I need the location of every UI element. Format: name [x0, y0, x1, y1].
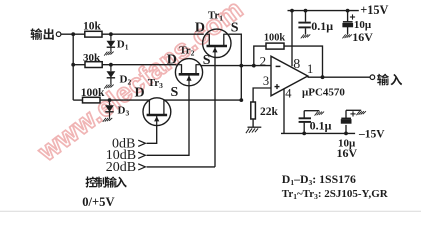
wire 100k to Tr3 D: [100, 99, 150, 101]
op-amp U1 (uPC4570): [271, 56, 308, 96]
svg-text:D: D: [135, 85, 145, 100]
junction feedback tap: [252, 64, 256, 68]
label -15V: [358, 129, 385, 141]
wire feedback right: [284, 46, 323, 77]
svg-text:Tr1~Tr3: 2SJ105-Y,GR: Tr1~Tr3: 2SJ105-Y,GR: [282, 188, 389, 201]
pin 8: [293, 57, 300, 72]
svg-text:20dB: 20dB: [106, 160, 136, 175]
svg-text:–15V: –15V: [358, 129, 385, 141]
svg-text:10k: 10k: [83, 21, 102, 33]
resistor 30k: [83, 52, 102, 68]
junction D3 tap: [108, 98, 112, 102]
terminal 输入 (input): [370, 75, 375, 80]
capacitor 10u 16V top: [342, 11, 355, 39]
watermark: [32, 0, 249, 167]
transistor Tr3: [143, 77, 171, 126]
label +15V: [360, 3, 388, 17]
wire bus to 30k: [73, 64, 85, 66]
label D of Tr1: [195, 20, 205, 35]
svg-text:D: D: [167, 53, 177, 68]
svg-text:100k: 100k: [264, 32, 285, 43]
junction 10u top: [346, 9, 350, 13]
pin 2: [260, 54, 267, 69]
terminal 输出: [56, 32, 61, 37]
label 16V bottom: [337, 146, 358, 160]
wire Tr2 S to op-amp pin2: [201, 65, 271, 67]
label 0.1u bottom: [310, 119, 332, 133]
transistor Tr1: [203, 10, 231, 58]
svg-text:0.1μ: 0.1μ: [311, 19, 333, 33]
svg-text:0.1μ: 0.1μ: [310, 119, 332, 133]
svg-text:16V: 16V: [352, 30, 373, 44]
junction 10u bottom: [344, 132, 348, 136]
wire 30k to Tr2 D: [102, 64, 176, 66]
wire pin4 to -15V rail: [283, 88, 285, 133]
wire Tr1 gate to 20dB: [147, 57, 215, 166]
svg-text:100k: 100k: [81, 87, 105, 99]
wire Tr2 gate to 10dB: [147, 86, 189, 156]
capacitor 0.1u top: [298, 11, 310, 39]
svg-text:30k: 30k: [83, 52, 101, 64]
diode D1: [104, 36, 129, 56]
wire pin3 to 22k: [253, 88, 271, 102]
pin 3: [263, 74, 269, 88]
label D of Tr2: [167, 53, 177, 68]
junction pin8 rail: [290, 9, 294, 13]
diode D3: [103, 102, 130, 122]
wire -15V rail: [281, 132, 355, 134]
svg-text:+15V: +15V: [360, 3, 388, 17]
svg-text:16V: 16V: [337, 146, 358, 160]
label 16V top: [352, 30, 373, 44]
junction D1 tap: [109, 32, 113, 36]
wire feedback left: [254, 46, 266, 66]
pin 1: [307, 62, 313, 76]
label 0.1u top: [311, 19, 333, 33]
pin 4: [285, 87, 292, 101]
label S of Tr3: [171, 85, 179, 100]
terminal 20dB: [106, 160, 146, 175]
svg-text:D: D: [195, 20, 205, 35]
wire terminal to R 10k: [61, 33, 85, 35]
svg-text:μPC4570: μPC4570: [302, 86, 345, 98]
svg-text:22k: 22k: [260, 106, 279, 118]
svg-text:S: S: [171, 85, 179, 100]
junction 0.1u top: [304, 9, 308, 13]
svg-text:4: 4: [285, 87, 292, 101]
label Tr1-Tr3 2SJ105: [282, 188, 389, 201]
junction node B: [71, 63, 75, 67]
label S of Tr2: [203, 53, 211, 68]
wire 22k to ground: [252, 119, 254, 127]
diode D2: [104, 67, 131, 89]
label S of Tr1: [231, 20, 239, 35]
transistor Tr2: [175, 44, 202, 85]
terminal 0dB: [112, 136, 145, 151]
label 10u bottom: [338, 137, 356, 149]
resistor 100k feedback: [264, 32, 285, 49]
junction Tr3 S node: [239, 98, 243, 102]
divider line: [0, 210, 421, 212]
wire op-amp output: [308, 76, 371, 78]
capacitor 0.1u bottom: [299, 111, 324, 134]
wire bus corner to 100k: [73, 99, 82, 101]
svg-text:1: 1: [307, 62, 313, 76]
wire +15V rail: [288, 10, 359, 12]
junction output/feedback: [321, 75, 325, 79]
label 10u top: [354, 19, 372, 31]
wire 10k to Tr1 D: [102, 33, 204, 35]
wire Tr3 S right: [164, 99, 242, 101]
junction S bus / inverting line: [239, 64, 243, 68]
terminal 10dB: [106, 148, 146, 163]
resistor 22k: [251, 102, 279, 119]
svg-text:2: 2: [260, 54, 267, 69]
resistor 100k: [81, 87, 105, 103]
svg-text:S: S: [231, 20, 239, 35]
junction 0.1u bottom: [302, 132, 306, 136]
wire Tr3 gate to 0dB: [147, 126, 157, 144]
junction D2 tap: [109, 63, 113, 67]
svg-text:3: 3: [263, 74, 269, 88]
wire left bus vertical: [72, 34, 74, 100]
junction node A: [71, 32, 75, 36]
label 输入: [377, 74, 402, 86]
label 0/+5V: [82, 195, 114, 209]
label D of Tr3: [135, 85, 145, 100]
label D1-D3 1SS176: [282, 172, 356, 187]
ground below 22k: [246, 127, 261, 133]
svg-text:0/+5V: 0/+5V: [82, 195, 114, 209]
wire Tr1 S right: [228, 34, 241, 100]
label uPC4570: [302, 86, 345, 98]
wire pin8 to +15V rail: [291, 11, 293, 67]
label 输出 (output): [31, 28, 54, 40]
resistor 10k: [83, 21, 102, 38]
svg-text:8: 8: [293, 57, 300, 72]
label 控制输入 (control input): [86, 176, 127, 187]
capacitor 10u 16V bottom: [341, 110, 366, 133]
